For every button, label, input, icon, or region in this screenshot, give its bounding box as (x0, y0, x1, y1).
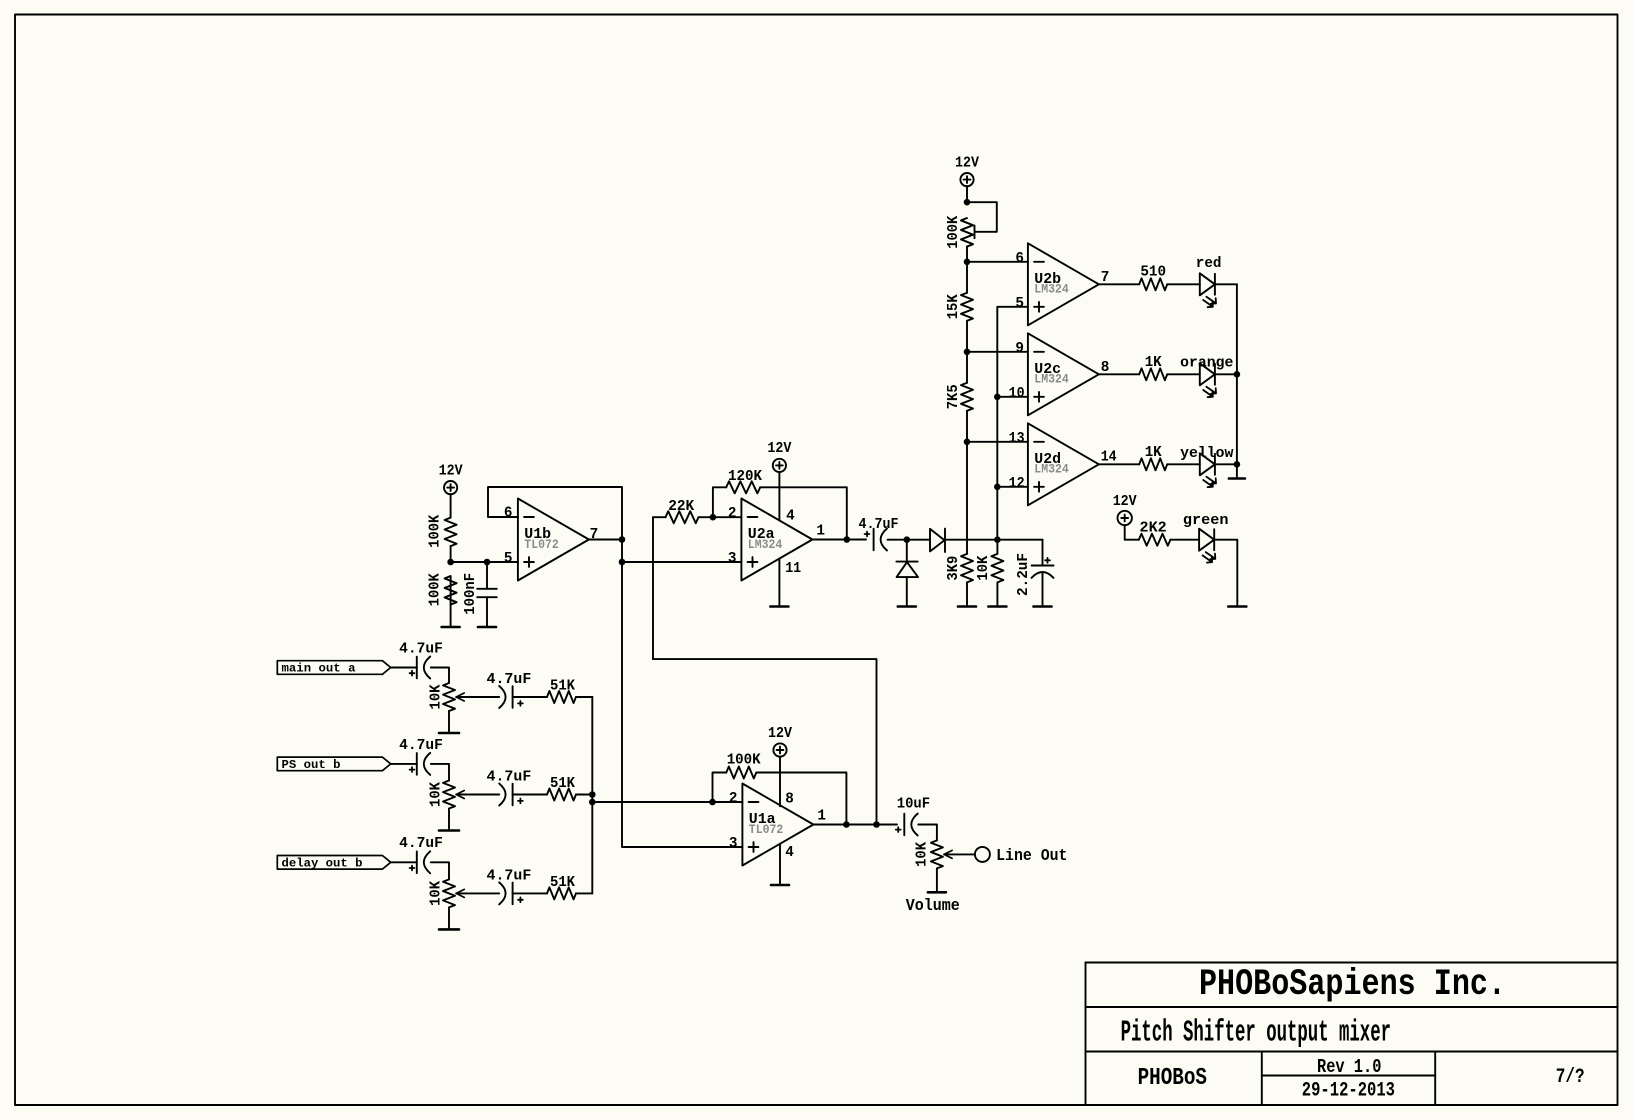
svg-text:TL072: TL072 (749, 823, 784, 837)
svg-text:29-12-2013: 29-12-2013 (1302, 1080, 1395, 1103)
wire volume to ground (936, 868, 938, 890)
resistor R17 100K feedback (713, 773, 727, 803)
node divider tap1 (964, 259, 971, 266)
wire U2a output (812, 539, 866, 541)
wire R1 to node VREF (450, 546, 452, 562)
svg-text:15K: 15K (945, 294, 962, 319)
wire P4 to trimmer (966, 186, 968, 202)
svg-text:yellow: yellow (1180, 445, 1233, 462)
svg-text:10uF: 10uF (897, 796, 930, 813)
wire 51K 1 to bus (576, 696, 592, 698)
node bus takeoff (589, 799, 596, 806)
svg-text:120K: 120K (728, 468, 762, 485)
wire wiper 3 to cap (456, 892, 499, 894)
svg-text:4.7uF: 4.7uF (399, 640, 443, 657)
diode D1 clamp (906, 540, 908, 562)
capacitor C2 4.7uF (873, 529, 875, 551)
op-amp U1b (518, 499, 589, 581)
wire VREF bus to U2a pin3 (622, 561, 741, 563)
svg-text:PHOBoSapiens Inc.: PHOBoSapiens Inc. (1199, 964, 1506, 1006)
ground R8 (958, 605, 976, 608)
wire U2b out to R10 (1099, 283, 1139, 285)
wire R2 to ground (450, 576, 452, 626)
svg-text:13: 13 (1009, 430, 1025, 447)
svg-text:12V: 12V (768, 725, 792, 742)
potentiometer R18 10K volume (931, 840, 943, 868)
trimmer R5 100K (961, 218, 973, 247)
node U1b output junction (619, 536, 626, 543)
svg-text:LM324: LM324 (748, 538, 783, 552)
potentiometer 10K input 2 (443, 781, 455, 809)
wire C2 to node A (888, 539, 907, 541)
node U2a output junction (844, 536, 851, 543)
wire 22K left leg (652, 517, 654, 659)
svg-text:2K2: 2K2 (1140, 519, 1167, 536)
connector Line Out (975, 847, 990, 862)
wire R3 to U2a pin2 (699, 516, 742, 518)
wire U1a output (813, 824, 897, 826)
wire to R3 (653, 516, 666, 518)
svg-text:12V: 12V (767, 440, 791, 457)
svg-text:14: 14 (1101, 448, 1117, 465)
svg-text:1: 1 (816, 523, 825, 540)
svg-text:11: 11 (785, 560, 801, 577)
wire P3 to U1a pin8 (779, 757, 781, 807)
potentiometer 10K input 3 (443, 879, 455, 907)
svg-text:7K5: 7K5 (945, 384, 962, 409)
node VREF junction (447, 559, 454, 566)
svg-text:100K: 100K (427, 573, 444, 606)
wire VREF bus down (621, 540, 623, 563)
ground LED4 (1228, 605, 1246, 608)
capacitor C3 2.2uF (1042, 540, 1044, 566)
wire U1a pin4 to ground (779, 844, 781, 884)
svg-text:100K: 100K (427, 515, 444, 548)
wire R12 to LED3 (1167, 463, 1200, 465)
wire LED1 to bus (1215, 283, 1237, 285)
svg-text:1K: 1K (1145, 354, 1162, 371)
node divider tap2 (964, 349, 971, 356)
wire P5 to R13 (1125, 525, 1139, 540)
resistor R6 15K (961, 293, 973, 321)
wire R10 to LED1 (1167, 283, 1200, 285)
op-amp U2c (1028, 333, 1099, 415)
wire 51K 3 to bus (576, 892, 592, 894)
wire main out a to cap (391, 667, 417, 669)
wire PS out b to cap (391, 763, 417, 765)
node bus orange (1234, 371, 1241, 378)
ground pot 1 (439, 732, 459, 735)
wire bus to U2d pin12 (997, 486, 1028, 488)
potentiometer 10K input 1 (443, 683, 455, 711)
svg-text:Line Out: Line Out (996, 847, 1067, 866)
op-amp U2a (741, 499, 812, 581)
svg-text:orange: orange (1180, 355, 1233, 372)
capacitor C9 4.7uF wiper 3 (512, 883, 514, 905)
svg-text:1K: 1K (1145, 444, 1162, 461)
wire node A to D2 (907, 539, 930, 541)
net label delay out b (277, 856, 390, 870)
resistor R8 3K9 (961, 554, 973, 583)
node C1 tap (484, 559, 491, 566)
wire LED3 to bus (1215, 463, 1237, 465)
net label PS out b (277, 757, 390, 771)
capacitor C4 4.7uF input 1 (416, 657, 418, 679)
svg-text:1: 1 (817, 808, 826, 825)
resistor R4 120K feedback (713, 487, 726, 517)
ground pot 3 (439, 928, 459, 931)
wire U2c out to R11 (1099, 373, 1139, 375)
node U1a out fb junction (843, 821, 850, 828)
wire C1 to U1b pin5 (487, 561, 518, 563)
capacitor C5 4.7uF input 2 (416, 753, 418, 775)
svg-text:10K: 10K (428, 685, 445, 710)
wire 22K input from U1a output (653, 659, 877, 824)
wire LED4 to ground (1214, 540, 1237, 605)
LED4 green (1199, 529, 1214, 551)
ground pot 2 (439, 829, 459, 832)
svg-text:5: 5 (504, 550, 513, 567)
wire R11 to LED2 (1167, 373, 1200, 375)
wire cap to pot 2 (431, 764, 449, 781)
svg-text:51K: 51K (550, 775, 575, 792)
op-amp U2d (1028, 423, 1099, 505)
svg-text:7/?: 7/? (1556, 1066, 1585, 1089)
svg-text:Pitch Shifter output mixer: Pitch Shifter output mixer (1121, 1017, 1391, 1051)
wire U2d out to R12 (1099, 463, 1139, 465)
wire 51K 2 to bus (576, 794, 592, 796)
LED2 orange (1200, 363, 1215, 385)
svg-text:10K: 10K (975, 556, 992, 581)
node bus row2 (589, 791, 596, 798)
ground volume (928, 891, 946, 894)
svg-text:Rev 1.0: Rev 1.0 (1317, 1056, 1381, 1078)
wire cap to pot 1 (431, 668, 449, 684)
node trimmer top junction (964, 199, 971, 206)
svg-text:12: 12 (1009, 475, 1025, 492)
diode D2 series (930, 529, 945, 552)
wire D2 to node B (945, 539, 1042, 541)
svg-text:100nF: 100nF (462, 573, 479, 615)
capacitor C7 4.7uF wiper 1 (512, 686, 514, 708)
node bus pin10 (994, 394, 1001, 401)
wire LED2 to bus (1215, 373, 1237, 375)
resistor R1 100K (445, 518, 457, 547)
op-amp U1a (742, 784, 813, 866)
svg-text:51K: 51K (550, 678, 575, 695)
capacitor C8 4.7uF wiper 2 (512, 784, 514, 806)
wire R8 to ground (966, 582, 968, 605)
svg-text:6: 6 (1015, 250, 1024, 267)
svg-text:10: 10 (1009, 385, 1025, 402)
svg-text:LM324: LM324 (1034, 373, 1069, 387)
svg-text:100K: 100K (727, 752, 761, 769)
svg-text:PS out b: PS out b (282, 758, 341, 772)
svg-text:4.7uF: 4.7uF (399, 835, 443, 852)
power +12V P1 (444, 481, 457, 494)
node A junction (904, 536, 911, 543)
svg-text:4.7uF: 4.7uF (487, 769, 532, 786)
LED1 red (1200, 273, 1215, 295)
svg-text:TL072: TL072 (524, 538, 559, 552)
svg-text:5: 5 (1015, 295, 1024, 312)
svg-text:green: green (1183, 512, 1229, 529)
resistor R3 22K (666, 511, 699, 523)
ground U2a (770, 605, 788, 608)
svg-text:12V: 12V (1113, 493, 1137, 510)
wire volume wiper to line out (944, 853, 975, 855)
svg-text:10K: 10K (913, 842, 930, 867)
capacitor C10 10uF (903, 814, 905, 836)
wire pot 3 to ground (448, 907, 450, 928)
wire C10 to volume pot (918, 825, 937, 841)
svg-text:9: 9 (1015, 340, 1024, 357)
op-amp U2b (1028, 243, 1099, 325)
resistor R11 1K (1139, 368, 1167, 380)
wire R6 leads (966, 262, 968, 293)
wire bus to U2c pin10 (997, 396, 1028, 398)
svg-text:4.7uF: 4.7uF (399, 737, 443, 754)
node U2a pin2 junction (710, 514, 717, 521)
resistor R13 2K2 (1139, 534, 1171, 546)
resistor R16 51K input 3 (547, 887, 576, 899)
svg-text:2: 2 (728, 505, 737, 522)
wire P2 to U2a pin4 (778, 472, 780, 520)
svg-text:4: 4 (785, 844, 794, 861)
LED cathode bus (1236, 284, 1238, 477)
wire delay out b to cap (391, 861, 417, 863)
svg-text:LM324: LM324 (1034, 463, 1069, 477)
U1b feedback wire pin6 to output (488, 487, 622, 540)
power +12V P5 (1118, 511, 1132, 525)
LED3 yellow (1200, 453, 1215, 475)
wire tap1 to U2b pin6 (967, 261, 1028, 263)
resistor R2 100K (445, 576, 457, 605)
svg-text:10K: 10K (428, 782, 445, 807)
svg-text:4.7uF: 4.7uF (487, 867, 532, 884)
capacitor C6 4.7uF input 3 (416, 852, 418, 874)
wire bus to U1a pin2 (592, 801, 742, 803)
svg-text:12V: 12V (439, 462, 463, 479)
plus-input bus wire (997, 307, 1028, 540)
wire pot 2 to ground (448, 809, 450, 830)
power +12V P4 (960, 173, 973, 186)
resistor R10 510 (1139, 278, 1167, 290)
svg-text:2.2uF: 2.2uF (1015, 553, 1032, 596)
svg-text:LM324: LM324 (1034, 283, 1069, 297)
svg-text:Volume: Volume (906, 897, 960, 916)
resistor R14 51K input 1 (547, 691, 576, 703)
svg-text:4.7uF: 4.7uF (859, 516, 899, 533)
svg-text:3: 3 (729, 835, 738, 852)
resistor R12 1K (1139, 458, 1167, 470)
wire cap to 51K 1 (513, 696, 547, 698)
power +12V P3 (773, 743, 786, 756)
node VREF bus tap U2a (619, 559, 626, 566)
wire R7 leads (966, 352, 968, 383)
node U1a fb junction (709, 799, 716, 806)
mixer summing bus (591, 697, 593, 893)
svg-text:delay out b: delay out b (282, 857, 363, 871)
wire R13 to LED4 (1170, 539, 1199, 541)
svg-text:PHOBoS: PHOBoS (1138, 1065, 1207, 1092)
node B junction (994, 536, 1001, 543)
wire VREF to C1 (451, 561, 487, 563)
node bus yellow (1234, 461, 1241, 468)
svg-text:3: 3 (728, 550, 737, 567)
ground C3 (1034, 605, 1052, 608)
ground C1 (478, 626, 496, 629)
node U1a out tap junction (873, 821, 880, 828)
svg-text:main out a: main out a (282, 662, 356, 676)
svg-text:2: 2 (729, 790, 738, 807)
svg-text:22K: 22K (668, 498, 694, 515)
wire cap to 51K 3 (513, 892, 547, 894)
capacitor C1 100nF (486, 562, 488, 589)
svg-text:red: red (1196, 255, 1222, 272)
resistor R7 7K5 (961, 383, 973, 411)
svg-text:12V: 12V (955, 154, 979, 171)
wire VREF bus down to U1a pin3 (622, 562, 742, 847)
wire pot 1 to ground (448, 711, 450, 732)
svg-text:100K: 100K (945, 216, 962, 249)
ground U1a (771, 884, 789, 887)
node divider tap3 (964, 439, 971, 446)
node bus pin12 (994, 484, 1001, 491)
wire divider down to R8 (966, 442, 968, 554)
wire trimmer to tap1 (966, 247, 968, 262)
wire wiper 2 to cap (456, 794, 499, 796)
wire cap to 51K 2 (513, 794, 547, 796)
wire wiper 1 to cap (456, 696, 499, 698)
ground R2 (442, 626, 460, 629)
svg-text:4: 4 (786, 508, 795, 525)
wire P1 to R1 (450, 494, 452, 517)
wire U1b output (589, 539, 622, 541)
svg-text:6: 6 (504, 505, 513, 522)
net label main out a (277, 661, 390, 675)
svg-text:4.7uF: 4.7uF (487, 671, 532, 688)
wire tap3 to U2d pin13 (967, 441, 1028, 443)
wire U2a pin11 to ground (778, 559, 780, 605)
power +12V P2 (773, 459, 786, 472)
ground R9 (988, 605, 1006, 608)
wire R9 leads (996, 540, 998, 554)
svg-text:10K: 10K (428, 881, 445, 906)
svg-text:3K9: 3K9 (945, 556, 962, 581)
ground D1 (898, 605, 916, 608)
ground LED bus (1229, 477, 1245, 480)
svg-text:51K: 51K (550, 874, 575, 891)
title block outer lines (1086, 962, 1618, 964)
svg-text:510: 510 (1140, 264, 1166, 281)
svg-text:8: 8 (785, 790, 794, 807)
wire cap to pot 3 (431, 862, 449, 879)
resistor R15 51K input 2 (547, 789, 576, 801)
wire tap2 to U2c pin9 (967, 351, 1028, 353)
resistor R9 10K (991, 554, 1003, 583)
